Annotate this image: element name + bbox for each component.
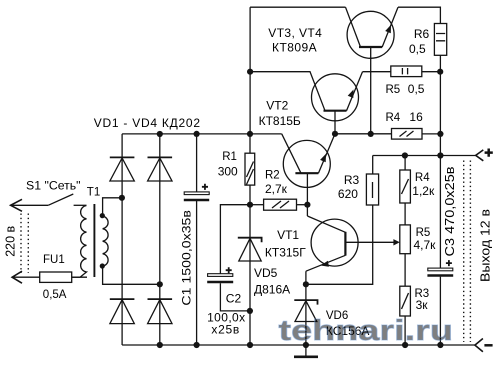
ground [294,345,318,357]
resistor R2 2,7k [250,199,307,210]
svg-text:2,7к: 2,7к [265,182,288,196]
connector dotted lines right [464,161,471,343]
svg-text:Д816А: Д816А [254,283,290,297]
svg-text:300: 300 [218,164,238,178]
resistor R4 16 (horizontal) [392,129,441,140]
diode VD1 top-left [110,157,135,181]
svg-text:С2: С2 [226,292,242,306]
svg-text:R3: R3 [344,173,360,187]
output minus terminal [475,339,483,352]
svg-text:Выход 12 в: Выход 12 в [478,209,493,282]
svg-text:х25в: х25в [211,323,240,337]
svg-text:4,7к: 4,7к [414,238,437,252]
diode VD4 bottom-right [148,299,173,324]
svg-text:R4: R4 [415,172,430,184]
potentiometer R5 4,7k [400,225,411,286]
svg-text:3к: 3к [416,298,429,312]
ground rail [122,344,475,346]
svg-text:1,2к: 1,2к [412,184,435,198]
connector dotted lines left [21,214,28,274]
svg-text:0,5: 0,5 [408,82,425,96]
secondary top lead [103,198,122,216]
svg-text:КТ815Б: КТ815Б [259,114,301,128]
svg-text:FU1: FU1 [43,254,65,266]
riser to top rail [249,7,251,134]
diode VD3 bottom-left [110,299,135,324]
resistor R3 3k [400,286,411,345]
output plus line [373,155,476,157]
capacitor C1 [184,134,209,345]
resistor R1 300 [245,134,255,205]
svg-text:S1 "Сеть": S1 "Сеть" [26,178,81,192]
svg-text:VD5: VD5 [254,266,278,280]
svg-text:620: 620 [338,187,358,201]
capacitor C2 [207,205,250,311]
svg-text:tehnari.ru: tehnari.ru [279,315,454,347]
resistor R5 0,5 (horizontal) [391,66,441,77]
top rail left segment (to VT3 collector) [250,6,345,8]
input terminal top arrow [11,199,49,211]
fuse FU1 [40,272,72,282]
output plus terminal [476,150,484,161]
transformer T1 secondary winding [103,216,109,266]
input terminal bottom arrow [12,271,87,283]
bridge left column [121,134,123,345]
transistor VT3 (VT3,VT4 KT809A) [346,7,399,134]
svg-text:R6: R6 [414,27,430,41]
transistor VT2 KT815B [282,134,335,216]
svg-text:R2: R2 [265,170,280,182]
svg-text:16: 16 [409,110,423,124]
svg-text:220 в: 220 в [3,225,17,256]
svg-text:VT2: VT2 [266,98,288,112]
resistor R3 620 [306,156,379,285]
transformer T1 primary winding [72,206,87,278]
zener VD6 KS156A [294,271,317,345]
svg-text:0,5: 0,5 [409,42,426,56]
svg-text:КТ315Г: КТ315Г [265,246,306,260]
top rail right segment (VT3 emitter to R6) [398,7,440,23]
svg-text:R5: R5 [386,84,401,96]
svg-text:Т1: Т1 [87,187,100,199]
svg-text:С3 470,0х25в: С3 470,0х25в [443,166,457,256]
svg-text:VT1: VT1 [277,228,299,242]
svg-text:R1: R1 [222,151,237,163]
resistor R6 0,5 (vertical) [434,24,446,156]
bridge right column [159,134,161,345]
svg-text:VT3, VT4: VT3, VT4 [268,26,322,40]
transistor VT1 KT315G [306,216,400,271]
transistor VT4 (second KT809A) [250,72,391,134]
svg-text:0,5А: 0,5А [43,289,67,301]
transformer T1 core [93,204,95,277]
capacitor C3 [427,156,453,346]
switch S1 [48,194,73,205]
zener VD5 D816A [238,205,262,345]
right divider column: resistor R4 1,2k [400,156,411,225]
svg-text:КТ809А: КТ809А [272,41,317,55]
svg-text:С1 1500,0х35в: С1 1500,0х35в [180,210,194,306]
svg-text:VD1 - VD4 КД202: VD1 - VD4 КД202 [94,116,201,130]
wire switch to transformer [74,204,87,206]
svg-text:R4: R4 [386,112,401,124]
plus rail from bridge [122,133,282,135]
bases line (VT3/VT4 bases to R4) [335,133,392,135]
secondary bottom lead [103,266,160,284]
diode VD2 top-right [148,157,173,181]
